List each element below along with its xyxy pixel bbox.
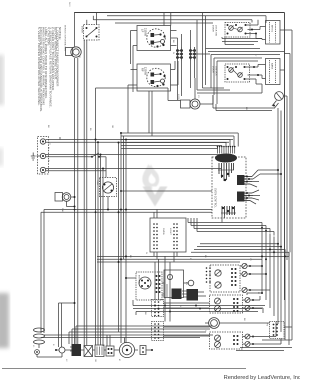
connector pins left of G1 [206, 267, 211, 283]
EOC wire fan below plug [218, 163, 234, 181]
transformer T1 [95, 345, 104, 357]
EOC connector pins [217, 146, 236, 154]
selector switch G1 (dashed box) [210, 265, 240, 292]
svg-text:M: M [78, 56, 80, 58]
wire hook at top left [92, 16, 94, 20]
spark module pins [182, 280, 198, 300]
svg-text:W: W [179, 305, 181, 307]
svg-text:BR: BR [245, 107, 247, 110]
EOC connector plug [216, 154, 237, 162]
wire bundle left risers [119, 133, 127, 332]
notice text block [37, 27, 62, 112]
wire S2 route over motor [96, 88, 181, 140]
svg-text:DOOR: DOOR [212, 25, 214, 32]
wire comb B fan [250, 190, 260, 204]
oven light / jack J1 [272, 92, 287, 108]
oven thermostat TOD [100, 178, 117, 197]
switch block X1 [84, 346, 93, 357]
svg-text:MOTOR: MOTOR [138, 275, 140, 284]
label light switch box [162, 228, 171, 236]
thermal limiter TCO [88, 153, 106, 158]
wire G feeds from bus [155, 256, 170, 321]
svg-text:LOCK SW: LOCK SW [214, 25, 216, 37]
svg-text:LIGHT: LIGHT [169, 228, 171, 236]
label box for motor M1 [66, 48, 73, 56]
wire top bus L2 drop [265, 16, 267, 21]
svg-text:BU: BU [89, 128, 91, 131]
svg-text:5. VERIFY PROPER OPERATION AFT: 5. VERIFY PROPER OPERATION AFTER SERVICI… [37, 27, 41, 106]
left pin strip lower [152, 322, 164, 341]
wire lock motor leads [195, 78, 213, 104]
svg-text:DOOR: DOOR [212, 66, 214, 73]
lock switch SW-B (dashed box) [225, 64, 250, 82]
label lock switch upper [212, 25, 217, 37]
wire connector risers [171, 30, 210, 100]
wire motor M6 leads [67, 196, 76, 208]
bake relay G2 (dashed box) [210, 295, 243, 313]
svg-text:BAKE: BAKE [271, 63, 274, 70]
main plug pins [70, 344, 81, 356]
wire TB1 L1 runs [46, 137, 233, 142]
wire S2 connections [128, 61, 178, 136]
igniter block [164, 270, 184, 299]
wire cluster G links [164, 292, 293, 351]
wire element E1 leads [256, 30, 284, 40]
wire TCO drop [105, 157, 107, 171]
bake element box [266, 59, 281, 85]
terminal lugs [140, 346, 153, 355]
oven fan motor M6 [62, 193, 71, 202]
wire right of EOC [258, 169, 282, 175]
surface unit switch S1 [137, 26, 171, 51]
terminal block TB1 (dashed box) [38, 137, 49, 175]
svg-text:OR: OR [111, 125, 113, 129]
component block [106, 346, 114, 356]
wire SW-B outputs [245, 65, 266, 85]
terminal N [40, 153, 45, 158]
wire left vertical V4 [86, 40, 88, 323]
surface light switch box [150, 218, 186, 252]
svg-text:BU: BU [204, 255, 206, 258]
wire main lower bus B [191, 244, 289, 256]
cooling fan motor M4 [116, 342, 138, 357]
svg-text:1200W: 1200W [144, 67, 147, 76]
svg-text:W: W [47, 147, 49, 149]
wire left vertical V1 lower [74, 58, 76, 331]
watermark flame logo [142, 164, 167, 207]
svg-text:GY: GY [249, 258, 251, 262]
lock switch SW-A (dashed box) [225, 23, 250, 38]
door lock motor M2 [190, 99, 200, 109]
wire jack leads [213, 95, 281, 247]
surface unit switch S2 [137, 64, 171, 91]
svg-text:Rendered by LeadVenture, Inc.: Rendered by LeadVenture, Inc. [224, 375, 300, 381]
EOC comb connector A [237, 175, 253, 185]
wire bus B right drops [278, 244, 289, 345]
svg-text:M: M [118, 359, 120, 361]
contacts right of G2 [245, 296, 263, 313]
svg-text:DOOR: DOOR [81, 26, 83, 33]
svg-text:BROIL: BROIL [271, 25, 273, 33]
door switch SW-D (dashed box) [84, 25, 100, 41]
wire right margin verticals [262, 30, 292, 340]
footer separator line [2, 368, 246, 370]
terminal L1 [40, 139, 45, 144]
wire TOD to control [120, 190, 212, 192]
wire right bank feeders [197, 20, 262, 93]
wire lower mid bus [133, 300, 265, 315]
wire door switch feeds [87, 12, 97, 25]
wire left vertical V1 upper [74, 12, 76, 47]
wire latch bus rows upper [222, 37, 262, 45]
wire right drop bundle A [262, 228, 274, 317]
broil relay G4 (dashed box) [210, 332, 243, 349]
wire top bus L1 [75, 12, 285, 14]
relay contacts right of G1 [240, 263, 270, 292]
connector P3 (dashed box) [270, 322, 285, 339]
svg-text:HV: HV [185, 282, 187, 286]
EOC bottom pin cluster [221, 206, 236, 215]
neutral lug [55, 347, 65, 353]
svg-text:W: W [145, 252, 147, 254]
junction dots on bundle [95, 132, 128, 170]
wire SW-A outputs [246, 20, 266, 39]
connector P2 pin block [189, 47, 196, 61]
electronic oven control EOC (dashed box) [212, 157, 246, 218]
door latch motor M1 [71, 47, 81, 57]
svg-text:W: W [257, 292, 259, 294]
svg-text:W10: W10 [68, 2, 70, 7]
label switch S2 [141, 67, 147, 76]
convection fan motor M3 [205, 318, 224, 329]
door motor M5 (dashed box) [136, 272, 162, 300]
wire TOD leads [106, 171, 108, 210]
svg-text:FAN: FAN [61, 208, 64, 213]
wire top bus L4 [115, 22, 213, 24]
label lock switch lower [212, 66, 217, 76]
wire bus drops to plug [69, 326, 76, 344]
wire comb A fan [250, 170, 260, 187]
wire color code labels [32, 40, 259, 363]
svg-text:2100W: 2100W [144, 28, 147, 37]
ground symbol [31, 153, 41, 161]
label switch S1 [141, 28, 147, 37]
svg-text:OVEN CONTROL: OVEN CONTROL [214, 188, 216, 208]
wire latch bus rows lower [206, 49, 285, 105]
EOC comb connector B [237, 192, 253, 202]
contacts right of G4 [245, 334, 281, 347]
wire left vertical V2 [77, 58, 79, 330]
svg-text:W: W [172, 52, 174, 54]
wire top bus L2 [107, 15, 266, 17]
terminal L2 [40, 167, 45, 172]
wire middle row links [125, 277, 206, 296]
wire element E2 leads [266, 21, 284, 71]
wire mid-left verticals [96, 140, 104, 331]
label box motor M6 [55, 193, 63, 202]
wire fuse feeders [59, 302, 76, 347]
svg-text:GD: GD [94, 359, 96, 363]
wire right border [284, 13, 286, 301]
wire top bus L3 [93, 19, 252, 21]
left pin strip upper [152, 300, 164, 317]
label box door lock motor [181, 100, 191, 108]
wire harness bundle to control [121, 133, 238, 149]
wire bottom cluster links [37, 323, 126, 357]
wire EOC output harness corners [188, 215, 274, 236]
wire latch area verticals [197, 12, 206, 90]
svg-text:UNLOCK: UNLOCK [214, 66, 216, 76]
wire TB1 L2 runs [46, 169, 221, 171]
wire bottom bus [41, 326, 213, 338]
svg-text:OVEN: OVEN [162, 228, 164, 235]
wire lower bus C [97, 256, 289, 262]
wire S1 connections [131, 12, 177, 92]
broil element box [266, 21, 281, 45]
power cord terminal stack [34, 328, 45, 354]
wire left vertical V3 [83, 40, 85, 326]
svg-text:DSI: DSI [161, 293, 163, 297]
connector P1 pin block [176, 47, 183, 61]
svg-text:GY: GY [197, 95, 199, 99]
wire lower loop bus A [41, 209, 212, 334]
junction dots bus B [118, 227, 287, 263]
wire box F feeds [154, 210, 177, 263]
wire TB1 N runs [46, 155, 225, 157]
